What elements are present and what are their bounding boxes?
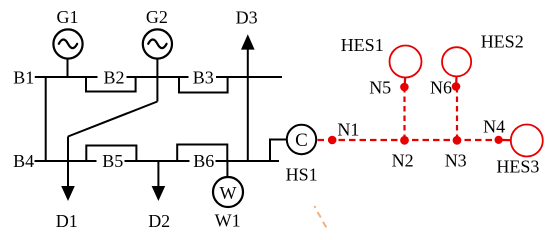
svg-text:G1: G1: [57, 7, 79, 27]
svg-text:HES2: HES2: [481, 32, 524, 52]
stray orange dashed mark: [314, 206, 316, 208]
svg-text:W1: W1: [215, 211, 241, 231]
node N1: [328, 136, 337, 145]
svg-text:HES3: HES3: [496, 156, 539, 176]
heat station HES2: [442, 47, 471, 76]
wire B1 to B4 vertical: [45, 77, 47, 161]
svg-text:D3: D3: [236, 7, 258, 27]
node N5: [400, 83, 409, 92]
svg-text:B3: B3: [193, 68, 214, 88]
wire bottom bus segment 3 (right of B6): [216, 160, 280, 162]
wire top bus segment 1 (B1 side): [35, 76, 98, 78]
svg-text:B5: B5: [102, 151, 123, 171]
wire G2 drop through top bus: [156, 59, 158, 102]
wire top bus segment 2 (between B2 and B3): [127, 76, 189, 78]
wire load D2 stem: [157, 161, 159, 188]
heat pipe main horizontal (dashed red): [318, 139, 504, 141]
wire diagonal from G2 line to D1 node: [68, 102, 157, 137]
svg-text:HES1: HES1: [341, 35, 384, 55]
wire bottom bus segment 1 (B4 side): [35, 160, 97, 162]
svg-text:B6: B6: [193, 151, 214, 171]
wire load D3 stem (runs from arrow down through top bus to bottom bus): [247, 48, 249, 162]
wire jog from bottom bus up to CHP unit: [270, 140, 287, 162]
svg-text:HS1: HS1: [286, 165, 318, 185]
load arrow D3: [241, 34, 255, 49]
CHP unit C: [287, 125, 316, 154]
node N3: [453, 136, 462, 145]
heat station HES1: [390, 46, 422, 78]
generator G2: [143, 29, 172, 58]
wire N6 to HES2 (solid red): [455, 76, 458, 87]
wire B3 bypass loop: [179, 76, 228, 93]
svg-text:N2: N2: [392, 151, 414, 171]
wire N5 to HES1 (solid red): [404, 77, 407, 87]
wire N4 to HES3 (solid red): [499, 139, 512, 142]
wire vertical into bottom bus and load D1 stem: [67, 137, 69, 189]
svg-text:N3: N3: [445, 151, 467, 171]
heat pipe N2 to N5 (dashed red): [403, 87, 405, 140]
wind unit W: [213, 177, 243, 207]
heat pipe N3 to N6 (dashed red): [456, 87, 458, 140]
node N2: [400, 136, 409, 145]
wire B2 bypass loop: [86, 76, 136, 92]
wire G1 drop to top bus: [67, 59, 69, 77]
svg-text:B4: B4: [13, 151, 34, 171]
load arrow D2: [152, 186, 166, 201]
svg-text:N4: N4: [483, 117, 505, 137]
heat station HES3: [511, 125, 543, 157]
svg-text:C: C: [295, 130, 308, 151]
node N4: [495, 136, 503, 144]
svg-text:G2: G2: [146, 7, 168, 27]
node N6: [452, 82, 461, 91]
wire top bus segment 3 (right of B3): [216, 76, 282, 78]
svg-text:D1: D1: [56, 211, 78, 231]
svg-text:W: W: [220, 183, 237, 203]
load arrow D1: [61, 186, 75, 201]
svg-text:N6: N6: [430, 78, 452, 98]
wire W drop from bottom bus: [226, 161, 228, 177]
svg-text:B2: B2: [103, 68, 124, 88]
generator G1: [53, 29, 82, 58]
wire bottom bus segment 2 (between B5 and B6): [125, 160, 190, 162]
svg-text:B1: B1: [13, 68, 34, 88]
svg-text:D2: D2: [148, 211, 170, 231]
wire B6 bypass loop: [177, 145, 227, 163]
svg-text:N1: N1: [337, 119, 359, 139]
wire B5 bypass loop: [86, 146, 136, 163]
svg-text:N5: N5: [369, 78, 391, 98]
